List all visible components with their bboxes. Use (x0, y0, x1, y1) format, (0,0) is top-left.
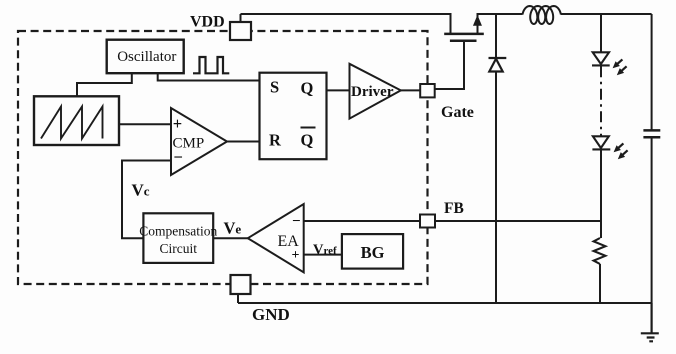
wire: VDD pad up to top rail (240, 14, 242, 22)
clock pulse waveform symbol (193, 57, 229, 73)
SR latch block (260, 73, 327, 160)
wire: oscillator right lead to S input of latch (158, 73, 260, 80)
svg-text:FB: FB (444, 200, 464, 217)
svg-text:Q: Q (301, 79, 314, 98)
wire: driver output to Gate pad (401, 89, 420, 91)
sawtooth waveform symbol (41, 107, 103, 139)
wire: resistor bottom lead to ground rail (599, 264, 601, 303)
svg-text:Q: Q (301, 131, 314, 150)
svg-text:VDD: VDD (190, 14, 225, 31)
wire: sawtooth output to CMP + input (119, 123, 171, 125)
LED D3 (592, 136, 610, 149)
sawtooth generator block (34, 96, 119, 145)
wire: MOSFET drain to switch node rail (478, 14, 523, 33)
LED D2 (592, 52, 610, 65)
svg-text:Driver: Driver (351, 84, 394, 100)
LED D3 emission arrows (614, 143, 628, 159)
svg-text:BG: BG (361, 243, 385, 262)
svg-text:+: + (292, 248, 300, 263)
svg-text:+: + (173, 114, 182, 133)
wire: Gate pad to MOSFET gate (435, 42, 465, 90)
svg-text:Circuit: Circuit (160, 241, 198, 256)
comparator CMP (171, 108, 227, 175)
svg-text:Ve: Ve (224, 219, 242, 238)
svg-text:−: − (292, 214, 301, 230)
FB pad (420, 215, 435, 228)
wire: dash-dot continuation between LED1 and LED2 (600, 66, 602, 136)
bandgap reference BG block (342, 234, 403, 269)
ground symbol (641, 303, 659, 341)
wire: GND pad down to ground rail (237, 294, 239, 303)
svg-text:GND: GND (252, 305, 290, 324)
svg-text:Vc: Vc (132, 181, 150, 200)
wire: FB net, EA - input to FB pad (304, 220, 420, 222)
svg-text:Gate: Gate (441, 104, 474, 121)
power MOSFET M1 gate bar (450, 39, 477, 42)
sense resistor R1 (594, 238, 606, 264)
LED D2 emission arrows (613, 59, 627, 75)
wire: EA + input to BG (Vref) (304, 254, 342, 256)
output capacitor C1 (643, 130, 660, 137)
Gate pad (420, 84, 435, 97)
wire: output capacitor bottom lead (651, 138, 653, 304)
wire: Q output of latch to driver input (327, 89, 350, 91)
svg-text:R: R (269, 131, 282, 150)
wire: Vc net, CMP - input down to compensation circuit (122, 161, 171, 239)
wire: bottom ground rail (238, 302, 652, 304)
error amplifier EA (248, 204, 304, 272)
latch Qbar overbar (301, 127, 316, 129)
wire: LED string column leads (600, 14, 602, 238)
wire: diode branch from switch node down to ground rail (495, 14, 497, 303)
IC boundary dashed box (18, 31, 428, 284)
wire: top rail VDD to MOSFET source (241, 14, 451, 33)
power MOSFET M1 channel bar (444, 33, 484, 36)
wire: oscillator left lead to sawtooth generator (77, 73, 132, 96)
wire: switch node rail from inductor to output corner (561, 13, 652, 15)
wire: Ve net, compensation circuit to EA output (213, 237, 248, 239)
svg-text:S: S (270, 78, 279, 97)
svg-text:Oscillator: Oscillator (117, 49, 176, 65)
wire: CMP output to R input of latch (227, 141, 260, 143)
wire: FB pad to feedback node at resistor (435, 220, 601, 222)
svg-text:Vref: Vref (313, 242, 337, 258)
compensation circuit block (143, 213, 213, 263)
inductor L1 (523, 6, 561, 24)
gate driver buffer (350, 64, 401, 119)
power MOSFET M1 drain arrow (474, 16, 482, 25)
oscillator block (107, 40, 184, 73)
svg-text:Compensation: Compensation (139, 224, 217, 239)
freewheel diode D1 (489, 58, 507, 72)
svg-text:−: − (174, 147, 183, 166)
GND pad (231, 275, 251, 294)
wire: output capacitor top lead (651, 14, 653, 130)
VDD pad (230, 22, 251, 40)
